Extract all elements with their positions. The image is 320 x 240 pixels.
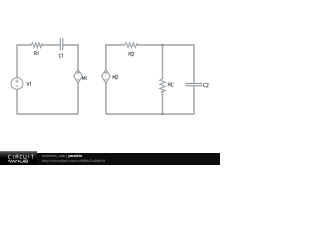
V1 plus/minus marks [15,80,18,87]
wire RC branch top [162,45,164,79]
junction node top [161,44,163,46]
footer bar [0,153,220,165]
label C1 [59,54,63,58]
wire M2 down + bottom rail to C2 [106,83,194,114]
CircuitLab logo box [0,151,37,165]
label M1 [82,76,86,80]
label C2 [203,83,208,87]
dependent source M1 diamond [74,69,83,83]
wire left circuit: left+top segment to R1 [17,45,31,78]
label V1 [27,82,31,86]
dependent source M2 diamond [102,69,111,83]
wire R2 to top-right corner [138,44,194,46]
label R1 [34,52,38,56]
logo word CIRCUIT [8,155,33,159]
junction node bottom [161,113,163,115]
capacitor C1 plates [60,38,63,50]
label RC [168,83,173,87]
voltage source V1 circle [11,78,23,90]
label R2 [129,52,134,56]
wire right circuit: left edge + top to R2 [106,45,125,70]
footer text line 1 [42,154,82,158]
logo arrow [18,160,20,163]
footer text line 2 [42,158,105,163]
logo word LAB [21,160,28,163]
wire C2 top [193,45,195,83]
capacitor C2 plates [186,84,203,86]
resistor R2 [124,43,137,48]
logo zigzag [8,160,17,162]
wire RC bottom [162,92,164,114]
M1 plus/minus marks [76,71,80,80]
M2 plus/minus marks [104,71,108,80]
wire R1 to C1 [43,44,61,46]
wire M1 bottom rail back to V1 [17,83,78,114]
wire C1 to corner and down to M1 [63,45,78,70]
resistor RC (vertical) [160,78,166,92]
label M2 [113,75,118,79]
resistor R1 [31,43,43,48]
